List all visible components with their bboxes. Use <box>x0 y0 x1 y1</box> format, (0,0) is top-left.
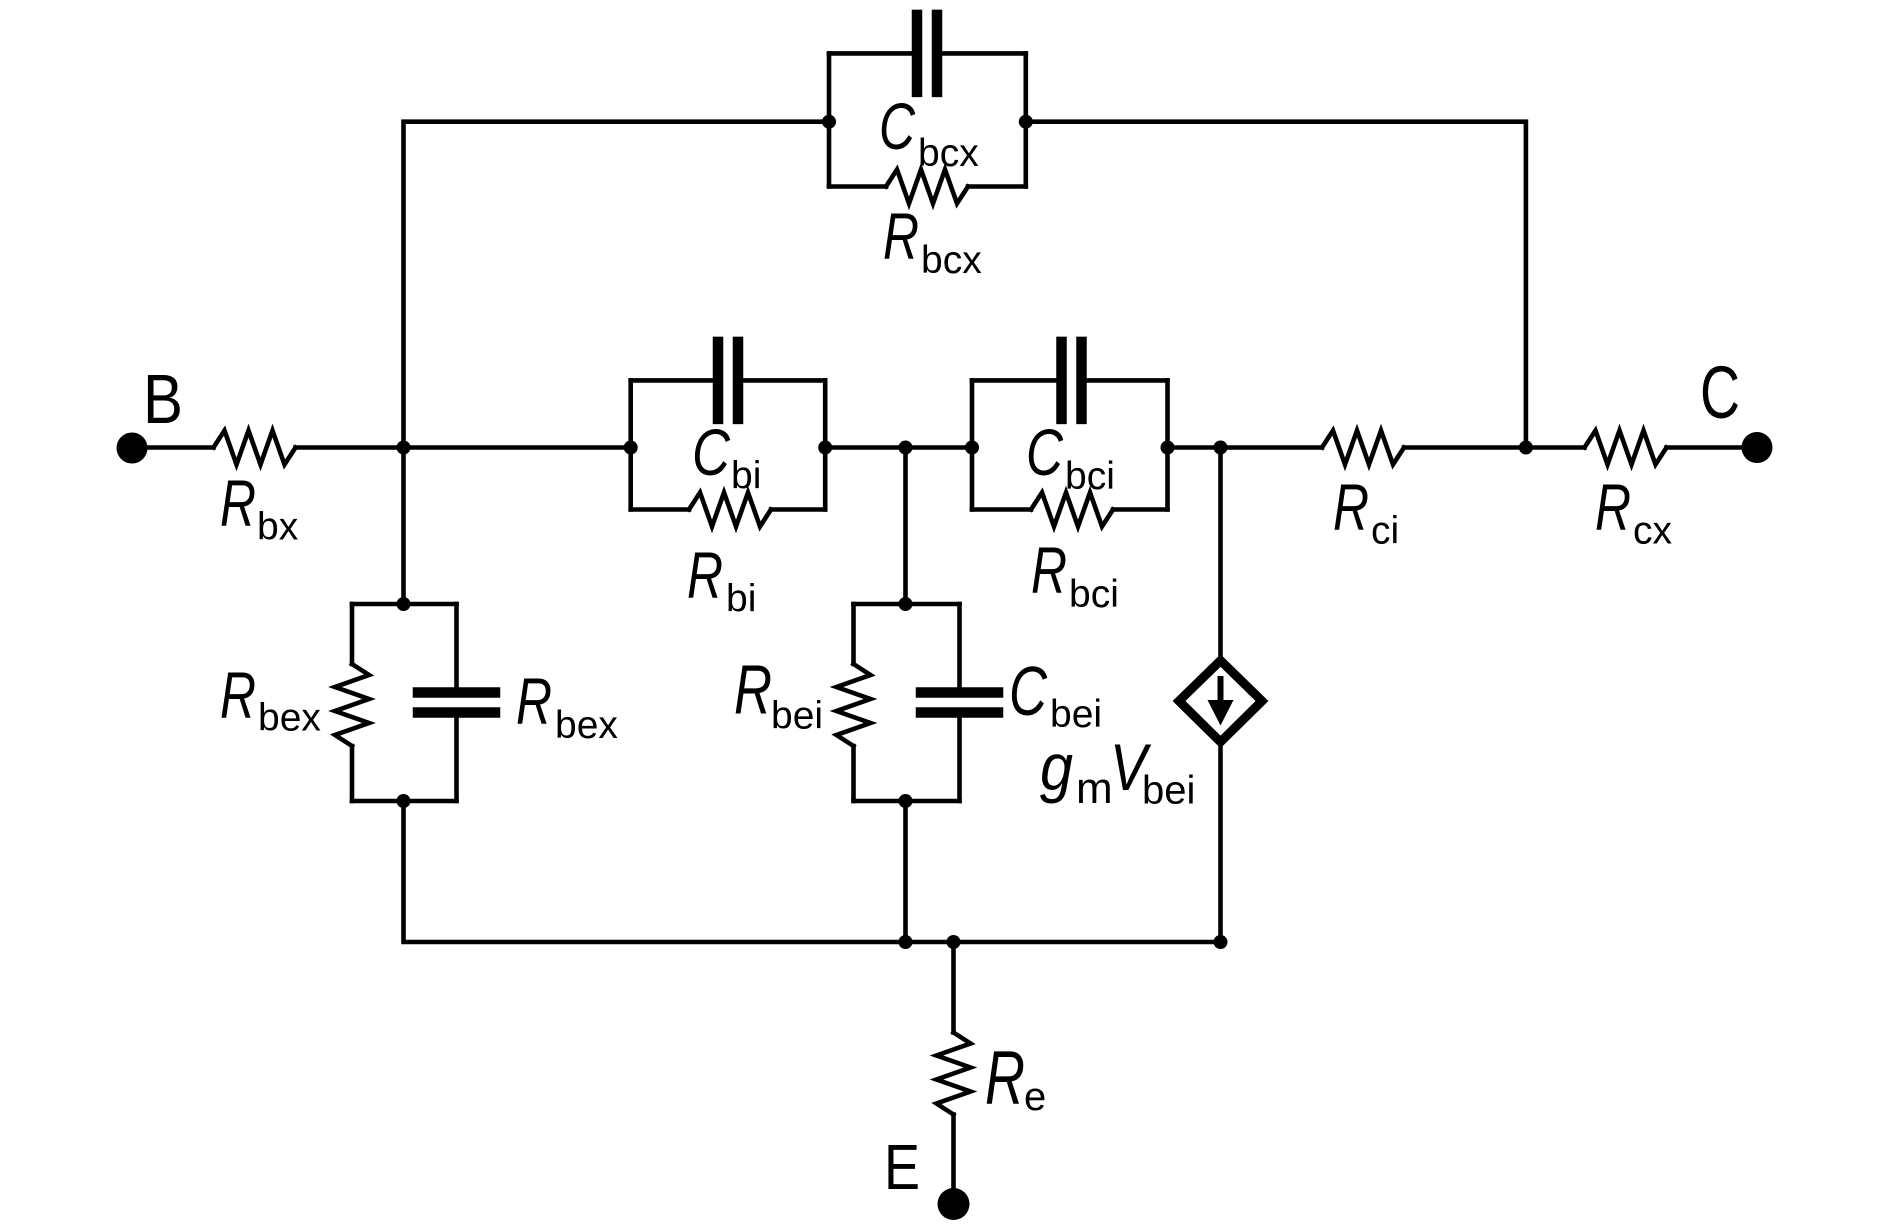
wire R_bei box down to rail <box>903 801 908 942</box>
top box left side <box>827 53 832 186</box>
resistor R_bx <box>214 431 296 465</box>
junction dot C_bi right <box>818 441 832 455</box>
resistor R_bei <box>837 664 871 746</box>
svg-text:R: R <box>220 658 256 732</box>
resistor R_bi <box>689 493 771 527</box>
svg-text:bcx: bcx <box>918 132 979 175</box>
junction dot top-branch join <box>1519 441 1533 455</box>
R_bex box right side segments <box>454 604 459 687</box>
wire top box to right corner down <box>1026 122 1526 448</box>
label R_bei <box>734 651 823 738</box>
resistor R_bci <box>1031 493 1113 527</box>
junction dot node1 <box>397 441 411 455</box>
svg-text:bx: bx <box>257 506 299 549</box>
junction dot top box left <box>822 115 836 129</box>
wire node2 down to R_bei box <box>903 448 908 605</box>
C_bci box left side <box>970 380 975 509</box>
junction dot R_bex bottom <box>397 794 411 808</box>
label R_bci <box>1031 533 1119 616</box>
label R_bex left <box>220 658 321 740</box>
wire current source down to rail <box>1218 742 1223 942</box>
top box right side <box>1024 53 1029 186</box>
R_bei box left side segments <box>851 604 856 664</box>
wire R_bx to C_bi box <box>296 445 631 450</box>
capacitor C_bi plates <box>713 337 744 425</box>
svg-text:C: C <box>1026 415 1064 489</box>
svg-text:bex: bex <box>258 697 321 740</box>
junction dot rail R_e <box>947 935 961 949</box>
wire R_bex box down to rail and rail across <box>404 801 1221 942</box>
svg-text:e: e <box>1024 1075 1046 1119</box>
label C_bci <box>1026 415 1115 498</box>
R_bei box right side segments <box>957 604 962 687</box>
wire node1 up and to top box <box>404 122 830 448</box>
label R_ci <box>1333 470 1399 553</box>
svg-text:g: g <box>1040 730 1073 804</box>
junction dot node3 <box>1214 441 1228 455</box>
junction dot rail R_bei <box>899 935 913 949</box>
wire R_cx to terminal C <box>1667 445 1758 450</box>
resistor R_bcx <box>886 170 968 204</box>
label R_bex right <box>516 664 618 747</box>
label C_bei <box>1009 652 1102 736</box>
resistor R_cx <box>1585 431 1667 465</box>
svg-text:R: R <box>516 664 552 738</box>
top box top edge segments <box>829 51 912 56</box>
C_bi box right side <box>823 380 828 509</box>
wire C_bi to C_bci <box>825 445 972 450</box>
wire rail down to R_e <box>951 942 956 1033</box>
svg-text:cx: cx <box>1633 510 1673 553</box>
resistor R_ci <box>1322 431 1404 465</box>
resistor R_bex <box>335 664 369 746</box>
R_bei box top edge <box>854 602 960 607</box>
R_bex box left side segments <box>350 604 355 664</box>
svg-text:R: R <box>985 1036 1025 1121</box>
junction dot top box right <box>1019 115 1033 129</box>
svg-text:R: R <box>687 538 723 612</box>
C_bi box left side <box>628 380 633 509</box>
terminal C dot <box>1742 432 1773 463</box>
R_bei box bottom edge <box>854 799 960 804</box>
C_bci box top edge segments <box>972 378 1056 383</box>
label C_bcx <box>879 89 979 175</box>
svg-text:R: R <box>1031 533 1067 607</box>
junction dot R_bei bottom <box>899 794 913 808</box>
svg-text:E: E <box>884 1131 920 1203</box>
svg-text:C: C <box>1700 351 1740 434</box>
wire node3 down to current source <box>1218 448 1223 661</box>
wire node1 down to R_bex box <box>401 448 406 605</box>
top box bottom edge segments <box>829 184 886 189</box>
capacitor plates (R_bex right) <box>413 687 501 718</box>
junction dot R_bex top <box>397 597 411 611</box>
label R_bcx <box>883 199 982 282</box>
svg-text:bei: bei <box>1142 769 1195 813</box>
C_bi box top edge segments <box>631 378 713 383</box>
svg-text:R: R <box>734 651 772 729</box>
terminal B dot <box>117 433 148 464</box>
svg-text:C: C <box>1009 652 1047 730</box>
junction dot C_bci right <box>1161 441 1175 455</box>
label R_bx <box>220 466 299 549</box>
wire B to R_bx <box>132 445 214 450</box>
svg-text:R: R <box>883 199 919 273</box>
svg-text:R: R <box>1595 470 1631 544</box>
C_bci box right side <box>1165 380 1170 509</box>
R_bex box bottom edge <box>352 799 457 804</box>
wire C_bci to R_ci <box>1168 445 1323 450</box>
junction dot node2 <box>899 441 913 455</box>
label g_m V_bei <box>1040 730 1195 813</box>
current source arrow <box>1208 676 1234 726</box>
label C_bi <box>692 415 761 498</box>
svg-text:C: C <box>692 415 731 489</box>
C_bci box bottom edge segments <box>972 507 1031 512</box>
label R_bi <box>687 538 756 621</box>
capacitor C_bci plates <box>1056 337 1087 425</box>
capacitor C_bei plates <box>916 687 1004 718</box>
junction dot rail right end <box>1214 935 1228 949</box>
svg-text:m: m <box>1076 764 1113 813</box>
svg-text:bcx: bcx <box>921 239 982 282</box>
svg-text:C: C <box>879 89 916 163</box>
svg-text:R: R <box>1333 470 1369 544</box>
svg-text:bci: bci <box>1069 573 1119 616</box>
wire R_ci to R_cx <box>1404 445 1585 450</box>
junction dot C_bci left <box>965 441 979 455</box>
capacitor C_bcx plates <box>912 10 943 98</box>
svg-text:bex: bex <box>555 704 618 747</box>
resistor R_e <box>937 1033 971 1115</box>
wire R_e to terminal E <box>951 1115 956 1194</box>
C_bi box bottom edge segments <box>631 507 689 512</box>
junction dot R_bei top <box>899 597 913 611</box>
svg-text:bei: bei <box>771 695 823 738</box>
current source g_mV_bei diamond <box>1179 661 1262 742</box>
junction dot C_bi left <box>624 441 638 455</box>
label R_e <box>985 1036 1046 1121</box>
svg-text:ci: ci <box>1371 510 1399 553</box>
svg-text:bi: bi <box>726 578 756 621</box>
label R_cx <box>1595 470 1673 553</box>
svg-text:B: B <box>143 360 183 438</box>
svg-text:R: R <box>220 466 256 540</box>
terminal E dot <box>938 1188 970 1220</box>
R_bex box top edge <box>352 602 457 607</box>
